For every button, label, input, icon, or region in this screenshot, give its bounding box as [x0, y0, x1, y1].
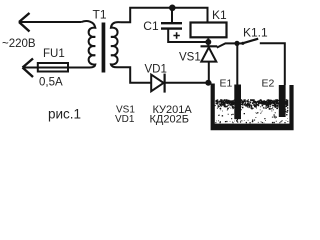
node junction VS1 anode: [205, 80, 211, 86]
transformer T1 primary winding: [82, 21, 96, 67]
svg-text:K1: K1: [212, 8, 227, 22]
svg-text:E2: E2: [262, 78, 275, 90]
tank walls: [211, 84, 294, 131]
svg-text:0,5А: 0,5А: [39, 77, 63, 89]
arrow top-left: [19, 13, 30, 32]
wire secondary bottom to rail: [117, 67, 151, 82]
svg-text:K1.1: K1.1: [243, 25, 268, 39]
svg-text:VD1: VD1: [115, 114, 135, 125]
wire electrode E1 lead: [236, 43, 238, 84]
wire top rail: [121, 8, 208, 23]
capacitor C1: [171, 8, 173, 23]
svg-text:КД202Б: КД202Б: [150, 113, 189, 125]
svg-text:E1: E1: [220, 78, 233, 90]
electrode E2: [279, 85, 286, 117]
wire C1 bottom to VS1 node: [168, 29, 208, 42]
wire bottom-left AC input: [23, 67, 90, 69]
wire bottom rail to tank: [165, 82, 212, 84]
node junction VS1 cathode: [205, 39, 211, 45]
thyristor VS1: [207, 42, 209, 46]
electrode E1: [234, 85, 241, 120]
relay K1: [191, 23, 227, 38]
contact K1.1: [237, 42, 243, 44]
svg-text:C1: C1: [143, 19, 159, 33]
svg-text:VD1: VD1: [145, 64, 167, 76]
svg-text:рис.1: рис.1: [48, 107, 81, 122]
svg-text:~220В: ~220В: [2, 38, 36, 50]
transformer T1 secondary winding: [111, 22, 121, 67]
svg-text:T1: T1: [93, 7, 107, 21]
fuse FU1: [38, 63, 68, 72]
plus sign C1 polarity: [173, 32, 179, 38]
wire K1 bottom lead: [207, 38, 209, 42]
node junction gate/K1.1: [234, 41, 239, 46]
water stipple: [215, 99, 289, 123]
svg-text:VS1: VS1: [179, 51, 201, 63]
diode VD1: [151, 75, 163, 92]
svg-text:FU1: FU1: [43, 48, 65, 60]
node junction C1 top: [169, 5, 176, 12]
wire VS1 gate: [217, 43, 237, 47]
arrow bottom-left: [23, 59, 34, 78]
transformer T1 core: [102, 23, 106, 73]
wire top-left AC input: [19, 21, 82, 23]
